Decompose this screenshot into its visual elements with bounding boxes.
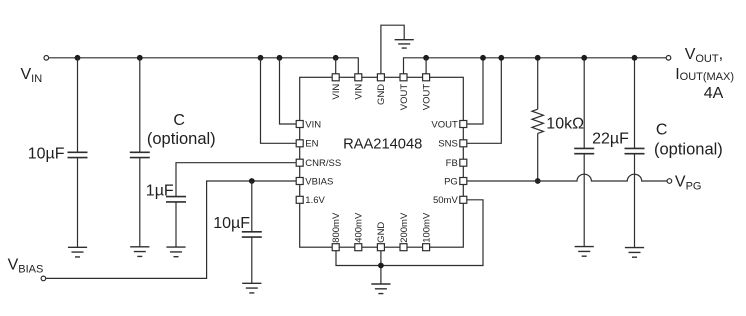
svg-text:SNS: SNS: [438, 139, 458, 150]
node junction dot C4: [249, 178, 255, 184]
wire riser VIN left pin: [280, 58, 296, 124]
wire CNR/SS to C3: [176, 163, 296, 197]
svg-text:VOUT: VOUT: [431, 119, 458, 130]
wire GND bottom drop: [380, 251, 382, 284]
node junction dot R1 bottom: [535, 178, 541, 184]
node junction dot R1 top: [535, 55, 541, 61]
pin VIN left: [296, 121, 303, 128]
svg-text:10µF: 10µF: [28, 145, 65, 162]
pin 800mV bottom: [332, 244, 339, 251]
pin VBIAS left: [296, 178, 303, 185]
wire SNS riser: [467, 58, 501, 144]
pin FB right: [460, 159, 467, 166]
node VIN terminal: [44, 56, 49, 61]
svg-text:VBIAS: VBIAS: [8, 257, 44, 276]
svg-text:(optional): (optional): [147, 130, 216, 148]
svg-text:PG: PG: [444, 176, 458, 187]
svg-text:VOUT,: VOUT,: [685, 46, 723, 65]
svg-text:1µF: 1µF: [146, 182, 174, 199]
ground top: [395, 40, 414, 48]
pin VIN top2: [355, 74, 362, 81]
svg-text:50mV: 50mV: [433, 195, 458, 206]
ground bottom: [371, 284, 390, 294]
svg-text:VPG: VPG: [675, 174, 702, 193]
node junction dot EN riser: [258, 55, 264, 61]
node VBIAS terminal: [41, 276, 46, 281]
ground C2: [130, 247, 149, 257]
svg-text:CNR/SS: CNR/SS: [305, 158, 341, 169]
wire 50mV pin to bottom bus: [336, 200, 483, 266]
node junction dot C6: [632, 55, 638, 61]
capacitor C3 1uF: [166, 197, 186, 202]
svg-text:800mV: 800mV: [331, 212, 342, 243]
op-amp U1 RAA214048 body: [300, 77, 464, 247]
node junction dot VOUT riser: [480, 55, 486, 61]
ground C5: [575, 247, 594, 257]
node junction dot bottom bus: [378, 263, 384, 269]
svg-text:10kΩ: 10kΩ: [546, 115, 584, 132]
svg-text:200mV: 200mV: [399, 212, 410, 243]
wire VBIAS path: [46, 181, 296, 278]
pin PG right: [460, 178, 467, 185]
capacitor C2 optional input: [139, 58, 141, 153]
wire VOUT rail: [404, 58, 667, 74]
pin VOUT top1: [400, 74, 407, 81]
wire VIN rail: [49, 58, 359, 74]
svg-text:VOUT: VOUT: [421, 84, 432, 111]
svg-text:VOUT: VOUT: [399, 84, 410, 111]
svg-text:22µF: 22µF: [592, 131, 629, 148]
svg-text:(optional): (optional): [654, 140, 723, 158]
capacitor C6 optional output: [634, 58, 636, 149]
wire PG line: [467, 174, 667, 181]
svg-text:VIN: VIN: [21, 66, 43, 85]
pin SNS right: [460, 140, 467, 147]
node VOUT terminal: [666, 56, 671, 61]
svg-text:400mV: 400mV: [354, 212, 365, 243]
capacitor C4 10uF vbias: [251, 181, 253, 232]
svg-text:VIN: VIN: [331, 84, 342, 100]
node junction dot SNS riser: [498, 55, 504, 61]
wire riser to top pin VIN1: [335, 58, 337, 74]
capacitor C5 22uF: [583, 58, 585, 149]
svg-text:GND: GND: [376, 222, 387, 243]
svg-text:EN: EN: [305, 139, 318, 150]
wire riser to top pin VOUT2: [425, 58, 427, 74]
svg-text:IOUT(MAX): IOUT(MAX): [675, 66, 734, 83]
svg-text:VIN: VIN: [354, 84, 365, 100]
node junction dot C5: [581, 55, 587, 61]
pin VOUT top2: [423, 74, 430, 81]
pin 400mV bottom: [355, 244, 362, 251]
svg-text:FB: FB: [446, 158, 458, 169]
svg-text:1.6V: 1.6V: [305, 195, 325, 206]
wire riser EN: [261, 58, 296, 144]
pin 100mV bottom: [423, 244, 430, 251]
svg-text:10µF: 10µF: [213, 215, 250, 232]
node VPG terminal: [667, 179, 672, 184]
node junction dot VIN-pin riser: [277, 55, 283, 61]
pin 50mV right: [460, 196, 467, 203]
svg-text:VBIAS: VBIAS: [305, 176, 333, 187]
pin VOUT right: [460, 121, 467, 128]
ground C6: [625, 248, 644, 258]
ground C1: [68, 247, 87, 257]
node junction dot C1: [75, 55, 81, 61]
node junction dot top pin5: [423, 55, 429, 61]
pin GND top: [377, 74, 384, 81]
pin VIN top1: [332, 74, 339, 81]
svg-text:VIN: VIN: [305, 119, 321, 130]
node junction dot top pin1: [333, 55, 339, 61]
pin CNR/SS left: [296, 159, 303, 166]
svg-text:GND: GND: [376, 84, 387, 105]
pin GND bottom: [377, 244, 384, 251]
pin 1.6V left: [296, 196, 303, 203]
capacitor C1 10uF input: [77, 58, 79, 153]
svg-text:C: C: [656, 121, 668, 138]
pin 200mV bottom: [400, 244, 407, 251]
svg-text:100mV: 100mV: [421, 212, 432, 243]
svg-text:C: C: [173, 112, 185, 129]
wire VOUT right pin riser: [467, 58, 483, 124]
pin EN left: [296, 140, 303, 147]
resistor R1 10k: [537, 58, 539, 109]
node junction dot C2: [137, 55, 143, 61]
svg-text:4A: 4A: [704, 85, 724, 102]
wire top GND pin to ground: [381, 25, 404, 73]
ground C4: [242, 283, 261, 293]
svg-text:RAA214048: RAA214048: [343, 137, 422, 153]
ground C3: [166, 247, 185, 257]
